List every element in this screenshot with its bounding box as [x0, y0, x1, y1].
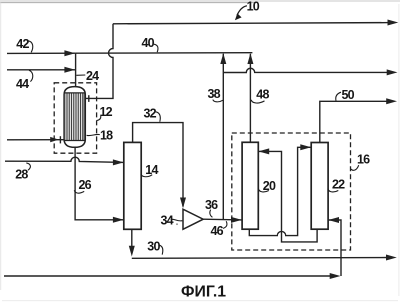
arrowhead into column 22 left — [300, 144, 311, 150]
svg-text:30: 30 — [147, 239, 160, 253]
arrowhead into reactor left — [50, 137, 59, 142]
scan artifact: bottom edge line — [2, 300, 398, 302]
leader 28 — [26, 163, 30, 170]
arrowhead bottom line into vertical — [330, 273, 341, 279]
svg-text:38: 38 — [208, 87, 221, 101]
leader 16 — [351, 165, 359, 170]
arrowhead into column 22 right — [328, 217, 339, 223]
wire: line 30 horizontal to right edge — [132, 257, 388, 260]
leader 26 — [74, 190, 84, 193]
arrowhead export branch right — [387, 69, 398, 75]
speckle near 34 — [176, 223, 178, 225]
wire: recycle line 38 vertical up to line 40 — [222, 54, 224, 220]
svg-text:40: 40 — [142, 36, 155, 50]
leader 30 — [159, 245, 163, 254]
arrowhead line 44 — [64, 67, 75, 73]
leader 50 — [336, 92, 341, 101]
nozzle tick on reactor left inlet — [59, 136, 61, 143]
column 20 — [242, 142, 258, 229]
leader 20 — [258, 189, 268, 192]
wire: line 48 overhead column 20 up to line 40 — [249, 54, 251, 143]
wire: vertical feed into reactor top (node 24) — [75, 53, 77, 86]
column 22 — [311, 143, 328, 230]
scan artifact: top edge band — [0, 0, 400, 2]
arrowhead line 28 into column 14 — [113, 159, 124, 165]
wire: compressor discharge to column 20 — [203, 218, 241, 221]
leader 14 — [141, 174, 152, 177]
leader 10 (arrow) — [237, 6, 247, 16]
wire: column 22 overhead to line 50 — [320, 101, 389, 142]
wire: feed into reactor left side — [7, 139, 64, 141]
svg-text:42: 42 — [16, 37, 29, 51]
arrowhead down at line 30 start — [129, 246, 135, 257]
svg-text:20: 20 — [263, 179, 276, 193]
wire: vertical from reactor right nozzle up to top line, with hop over line 40 — [85, 24, 113, 99]
svg-text:46: 46 — [211, 224, 224, 238]
wire: line 40 horizontal — [76, 52, 253, 55]
nozzle tick on reactor right outlet — [88, 95, 90, 102]
wire: top product line (net 10) — [113, 23, 390, 24]
wire: reactor bottom outlet, line 26 down then right into column 14 — [75, 147, 124, 220]
arrowhead line 26 into column 14 — [113, 217, 124, 223]
leader 42 — [28, 41, 33, 53]
dashed enclosure 12 — [54, 83, 96, 153]
leader 44 — [29, 70, 33, 81]
svg-text:36: 36 — [205, 198, 218, 212]
arrowhead line 42 — [64, 50, 75, 56]
leader 40 — [154, 44, 158, 52]
svg-text:16: 16 — [357, 153, 370, 167]
leader 32 — [156, 112, 161, 122]
scan artifact: top border line — [0, 2, 255, 4]
svg-text:32: 32 — [144, 107, 157, 121]
svg-text:44: 44 — [16, 77, 29, 91]
wire: line 28 with hop over reactor bottom outlet — [5, 157, 124, 162]
arrowhead top line right — [388, 20, 399, 26]
leader 34 (tilde) — [171, 219, 183, 221]
svg-text:12: 12 — [100, 105, 113, 119]
leader 12 — [97, 116, 101, 121]
wire: column 20 bottoms to column 22 top, hop over recycle line — [249, 147, 310, 235]
wire: export branch to right edge with hop over line 48 — [223, 68, 389, 72]
dashed enclosure 16 — [232, 133, 351, 250]
leader 18 — [87, 134, 100, 135]
tube sheet top — [64, 92, 85, 94]
tubes hatching — [66, 93, 84, 140]
leader 36 — [210, 210, 213, 218]
arrowhead into column 20 left — [231, 217, 242, 223]
column 14 — [124, 142, 141, 229]
wire: feed line 44 — [7, 69, 76, 71]
svg-text:26: 26 — [79, 178, 92, 192]
arrowhead line 30 right — [386, 255, 397, 261]
wire: bottom feed line up into column 22 right side — [329, 220, 341, 276]
wire: feed line 42 — [7, 52, 76, 54]
leader 38 — [213, 100, 223, 102]
leader 24 (tick) — [76, 74, 85, 76]
svg-text:24: 24 — [86, 69, 99, 83]
leader 22 — [328, 189, 338, 192]
svg-text:ФИГ.1: ФИГ.1 — [181, 284, 226, 301]
arrowhead line 50 right — [386, 98, 397, 104]
svg-text:10: 10 — [247, 0, 260, 14]
arrowhead line 48 up — [247, 53, 253, 64]
scan artifact: left edge line — [0, 2, 2, 290]
svg-text:34: 34 — [161, 214, 174, 228]
svg-text:22: 22 — [332, 177, 345, 191]
wire: column 22 bottoms recycle to column 20 top — [259, 151, 317, 242]
reactor vessel 18 (shell) — [64, 87, 85, 148]
svg-text:14: 14 — [145, 163, 158, 177]
svg-text:28: 28 — [15, 168, 28, 182]
arrowhead line 32 down into compressor — [180, 198, 186, 209]
scan artifact: right edge line — [398, 4, 400, 296]
wire: line 32 overhead of column 14 to compressor — [133, 123, 183, 207]
arrowhead line 38 up into line 40 — [220, 53, 226, 64]
tube sheet bottom — [64, 140, 85, 142]
wire: bottom horizontal feed line — [4, 275, 334, 277]
arrowhead into column 20 right — [258, 148, 269, 154]
compressor 34 (triangle) — [183, 209, 203, 229]
svg-text:18: 18 — [100, 129, 113, 143]
wire: column 14 bottoms line 30 — [131, 229, 133, 249]
svg-text:50: 50 — [342, 88, 355, 102]
leader 48 — [251, 100, 264, 103]
leader 46 — [223, 221, 227, 228]
svg-text:48: 48 — [256, 88, 269, 102]
reference leaders (hooks) — [26, 6, 358, 255]
